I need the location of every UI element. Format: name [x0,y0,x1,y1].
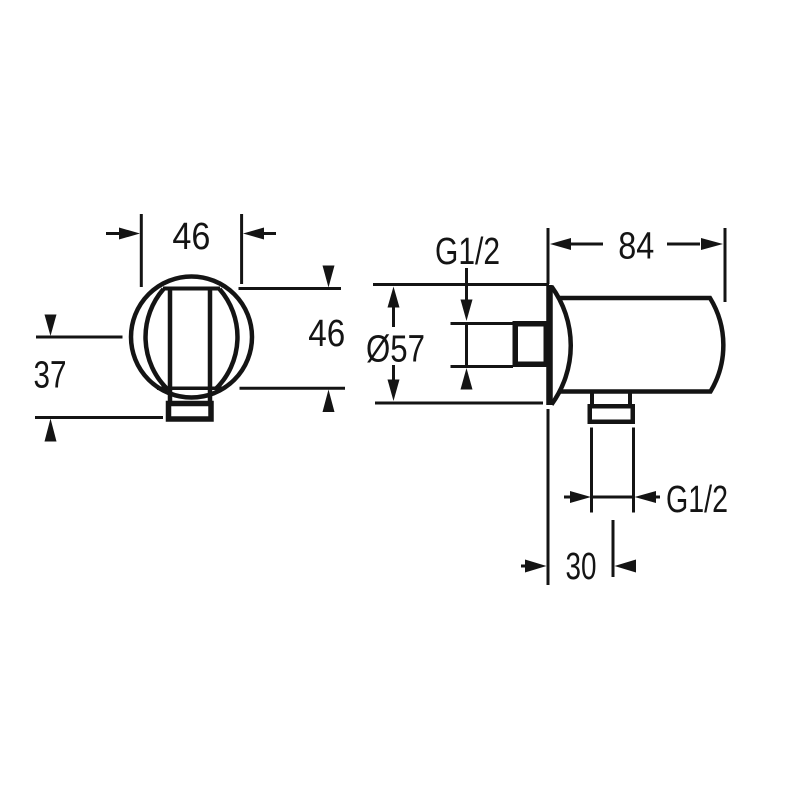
dim 84: right extension line [724,228,727,302]
wall plane extension line [547,409,550,585]
dim 84: right arrow [667,243,700,246]
front view: flange outer circle [131,277,252,398]
dim 37: bottom extension line [35,416,163,419]
dim 37: top arrow (down) [45,315,57,337]
dim 46 right: bottom arrow (up) [323,390,335,413]
svg-text:30: 30 [566,546,597,588]
nipple dim line segment [465,324,468,367]
dim diameter 57: dimension line upper segment [392,305,395,327]
front view: dome left arc [146,289,168,389]
side view: body outline [558,298,724,392]
svg-text:G1/2: G1/2 [666,479,728,521]
dim 46 right: bottom extension line [240,387,346,390]
dim 84: left extension line [547,228,550,284]
side view: flange wall edge [546,285,553,405]
dim G1/2 bottom: left arrow [564,496,574,499]
dim 46 top: left extension line [140,214,143,287]
side view: outlet neck left edge [590,394,594,405]
outlet left extension line [590,428,593,513]
dim diameter 57: top arrow (up) [388,287,400,308]
front view: body left edge [168,289,173,402]
front view: body bottom chord [157,387,225,391]
dim diameter 57: dimension line lower segment [392,365,395,383]
nipple bottom extension line [451,365,514,368]
nipple dim bottom arrow (up) [461,368,473,390]
svg-text:G1/2: G1/2 [435,231,500,273]
svg-text:37: 37 [34,355,67,397]
dim G1/2 bottom: dimension line [592,496,634,499]
dim 46 right: top extension line [239,287,342,290]
dim 30: right arrow [615,560,637,573]
dim G1/2 bottom: right arrow [652,496,660,499]
front view: outlet collar [169,404,212,420]
dim 30: left arrow [521,565,529,568]
dim 46 top: right extension line [240,214,243,284]
front view: body top chord [163,287,220,291]
dim 46 top: right arrow [262,232,276,235]
label G1/2 top: leader line [465,268,468,302]
front view: dome right arc [216,289,238,389]
side view: flange dome arc [552,287,571,405]
svg-text:46: 46 [172,216,210,258]
front view: body right edge [208,289,213,402]
dim diameter 57: bottom extension line [375,402,543,405]
outlet right extension line [632,428,635,513]
dim 46 top: left arrow [106,232,121,235]
label G1/2 top: leader arrow (down) [461,300,473,322]
dim 37: top extension line [36,336,123,339]
svg-text:84: 84 [618,226,654,268]
dim 46 right: top arrow (down) [323,266,335,288]
dim diameter 57: top extension line [373,283,549,286]
side view: outlet collar [590,406,633,422]
svg-text:46: 46 [308,313,345,355]
svg-text:Ø57: Ø57 [366,329,425,371]
dim 37: bottom arrow (up) [45,419,57,442]
nipple top extension line [451,322,514,325]
dim 84: left arrow [570,243,603,246]
side view: inlet nipple G1/2 [515,324,546,365]
outlet centre extension line [612,520,615,577]
side view: outlet neck right edge [628,394,632,405]
dim diameter 57: bottom arrow (down) [388,380,400,402]
